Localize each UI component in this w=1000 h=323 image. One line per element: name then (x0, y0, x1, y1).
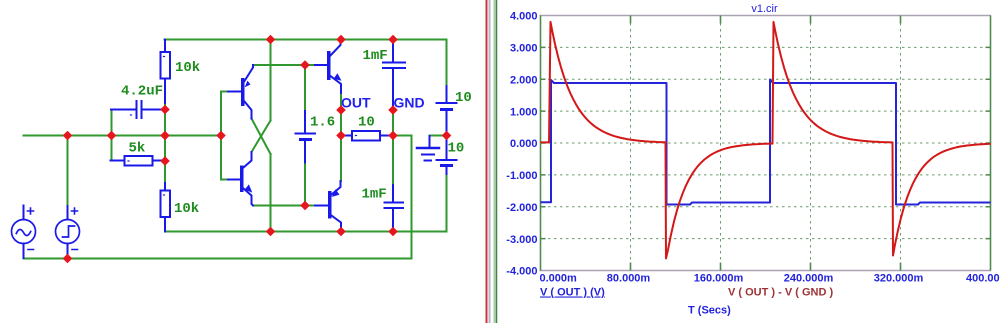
resistor R4 10 (341, 131, 393, 141)
source V1 sine (12, 206, 36, 259)
vertical gridline 160m (720, 17, 722, 270)
battery B1 10 (437, 86, 457, 136)
splitter light green line (494, 0, 496, 323)
wire top rail (165, 40, 447, 87)
transistor Q3 (315, 40, 342, 94)
svg-text:5k: 5k (129, 141, 146, 157)
node OUT / R4 left (336, 131, 346, 141)
svg-text:1mF: 1mF (362, 187, 387, 203)
node top rail / Q3 collector (336, 35, 346, 45)
wire cap left branch (111, 110, 113, 160)
transistor Q1 (228, 65, 253, 119)
svg-text:0.000: 0.000 (510, 138, 538, 150)
svg-text:V ( OUT ) - V ( GND ): V ( OUT ) - V ( GND ) (728, 287, 833, 299)
x-axis ticks (631, 16, 901, 271)
horizontal gridline 3 (542, 46, 989, 48)
plot left border (540, 16, 542, 271)
node base column (216, 131, 226, 141)
resistor R1 10k (161, 40, 171, 104)
svg-text:0.000m: 0.000m (540, 273, 578, 285)
vertical gridline 80m (630, 17, 632, 270)
wire pulse source to rail (67, 136, 69, 207)
plot bottom border (540, 270, 992, 272)
node rail / R columns (160, 131, 170, 141)
plot top border (540, 15, 992, 17)
wire bottom rail A (165, 174, 447, 232)
wire battery 1.6 top (304, 65, 306, 111)
wire Q1 base green part (221, 91, 228, 93)
source V2 pulse (56, 206, 80, 256)
node rail A / crossover (266, 227, 276, 237)
svg-text:-4.000: -4.000 (506, 266, 537, 278)
battery B3 1.6 (296, 111, 316, 163)
svg-text:-3.000: -3.000 (506, 234, 537, 246)
trace V(OUT) blue square wave (541, 80, 991, 205)
node top rail / crossover (266, 35, 276, 45)
wire bottom source rail to GND column (24, 136, 412, 259)
svg-text:240.000m: 240.000m (784, 273, 834, 285)
horizontal gridline 1 (542, 110, 989, 112)
svg-text:-1.000: -1.000 (506, 170, 537, 182)
resistor R2 5k (111, 156, 166, 166)
horizontal gridline 2 (542, 78, 989, 80)
DIVIDER (487, 0, 497, 323)
node top rail / C2 (388, 35, 398, 45)
svg-text:OUT: OUT (341, 95, 371, 111)
capacitor C2 1mF (383, 40, 405, 111)
svg-text:4.2uF: 4.2uF (121, 84, 163, 100)
node bottom rail / V2 (63, 254, 73, 264)
wire R1 bottom to cap junction (164, 95, 166, 186)
svg-text:400.000: 400.000 (966, 273, 1000, 285)
wire OUT column upper (340, 93, 342, 136)
resistor R3 10k (161, 183, 171, 232)
svg-text:10: 10 (358, 115, 375, 131)
node input rail / pulse source (63, 131, 73, 141)
plot right border (990, 16, 992, 271)
svg-text:v1.cir: v1.cir (751, 3, 778, 15)
battery B2 10 (437, 136, 457, 175)
splitter red line (486, 0, 488, 323)
node Q4 base / B3 bottom (300, 201, 310, 211)
wire Q2 base green part (221, 179, 228, 181)
node 5k right (160, 156, 170, 166)
node cap right / R1 (160, 105, 170, 115)
transistor Q2 (228, 152, 253, 206)
wire Q1 emitter to Q3 base (253, 64, 315, 66)
horizontal gridline -1 (542, 174, 989, 176)
wire crossover vertical lower (270, 154, 272, 232)
transistor Q4 (315, 181, 341, 232)
node GND / R4 right (388, 131, 398, 141)
wire GND cap column (392, 110, 394, 185)
wire OUT column lower (340, 136, 342, 182)
svg-text:2.000: 2.000 (510, 75, 538, 87)
SCHEMATIC PANEL (12, 35, 472, 264)
capacitor C3 1mF (385, 185, 404, 232)
wire GND dot to right vertical (393, 135, 412, 137)
trace V(OUT)-V(GND) red waveform (541, 22, 991, 259)
svg-text:10: 10 (448, 141, 465, 157)
horizontal gridline -2 (542, 206, 989, 208)
svg-text:80.000m: 80.000m (607, 273, 651, 285)
svg-text:10k: 10k (175, 60, 200, 76)
node cap left (107, 131, 117, 141)
svg-text:10: 10 (455, 90, 472, 106)
horizontal gridline 0 (542, 142, 989, 144)
wire X diagonal 2 (252, 121, 271, 153)
y-axis ticks (541, 47, 991, 238)
node OUT (336, 105, 346, 115)
horizontal gridline -3 (542, 238, 989, 240)
node GND (388, 105, 398, 115)
svg-text:T (Secs): T (Secs) (688, 305, 731, 317)
svg-text:10k: 10k (174, 201, 199, 217)
svg-text:-2.000: -2.000 (506, 202, 537, 214)
svg-text:160.000m: 160.000m (694, 273, 744, 285)
svg-text:V ( OUT ) (V): V ( OUT ) (V) (540, 287, 605, 299)
node rail A / C3 (388, 227, 398, 237)
svg-text:GND: GND (394, 95, 425, 111)
node rail A / Q4 collector (336, 227, 346, 237)
splitter dark green line (496, 0, 498, 323)
svg-text:1mF: 1mF (363, 48, 388, 64)
wire base column x221 (220, 92, 222, 180)
wire battery 1.6 bottom (304, 163, 306, 206)
svg-text:1.6: 1.6 (310, 115, 335, 131)
ground (417, 136, 439, 161)
wire Q2 emitter to Q4 base (253, 205, 315, 207)
node battery stack mid (442, 131, 452, 141)
ground lead wire (430, 135, 444, 137)
node Q3 base / B3 top (300, 60, 310, 70)
wire left input rail (24, 135, 222, 137)
capacitor C1 4.2uF (111, 101, 165, 118)
wire X diagonal 1 (252, 119, 271, 155)
svg-text:4.000: 4.000 (510, 11, 538, 23)
splitter gray line (489, 0, 491, 323)
vertical gridline 320m (900, 17, 902, 270)
CHART PANEL (506, 3, 1000, 317)
svg-text:320.000m: 320.000m (874, 273, 924, 285)
svg-text:1.000: 1.000 (510, 106, 538, 118)
wire crossover vertical upper (270, 40, 272, 121)
vertical gridline 240m (810, 17, 812, 270)
svg-text:3.000: 3.000 (510, 43, 538, 55)
